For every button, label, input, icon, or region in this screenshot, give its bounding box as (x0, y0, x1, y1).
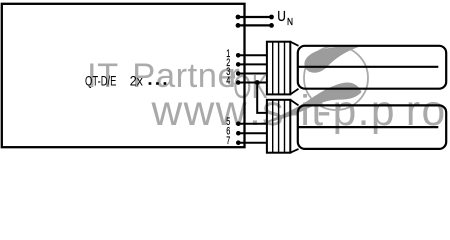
svg-text:2x: 2x (130, 73, 143, 89)
lamp 1 tube (298, 46, 446, 89)
svg-text:QT-D/E: QT-D/E (85, 72, 116, 88)
lamp 1 base (267, 42, 290, 95)
terminal dot pin 5 (236, 121, 241, 126)
lamp 2 neck (290, 100, 298, 153)
svg-text:U: U (277, 8, 286, 24)
ballast box QT-D/E (2, 4, 245, 147)
terminal dot U_N 1 right (269, 15, 274, 20)
label U_N (277, 8, 293, 28)
terminal dot pin 3 (236, 71, 241, 76)
junction dot on pin 4 wire (255, 80, 260, 85)
terminal dot pin 2 (236, 62, 241, 67)
wire shared drop from pin 4 to lamp 2 (257, 83, 267, 113)
lamp 2 middle line (299, 126, 439, 128)
lamp 2 tube (298, 105, 446, 148)
terminal dot U_N 2 right (269, 23, 274, 28)
wire pin 6 (238, 132, 267, 134)
svg-text:7: 7 (226, 135, 230, 148)
terminal dot pin 1 (236, 53, 241, 58)
lamp 2 base (267, 100, 290, 153)
label ellipsis dots (149, 82, 167, 85)
wire U_N line 1 (238, 16, 272, 18)
lamp 1 middle line (299, 66, 439, 68)
lamp 1 neck (290, 42, 298, 95)
wire pin 7 (238, 142, 267, 144)
terminal dot pin 6 (236, 131, 241, 136)
wire pin 3 (238, 73, 267, 75)
svg-text:N: N (287, 16, 293, 28)
svg-text:4: 4 (226, 74, 230, 87)
wire pin 1 (238, 54, 267, 56)
terminal dot pin 4 (236, 80, 241, 85)
wire pin 2 (238, 63, 267, 65)
wire pin 4 (238, 82, 267, 84)
terminal dot U_N 2 left (236, 23, 241, 28)
watermark ring of logo (304, 46, 368, 110)
watermark swoosh logo lower leaf and tail (261, 83, 362, 124)
wire pin 5 (238, 123, 267, 125)
wire U_N line 2 (238, 24, 272, 26)
watermark swoosh logo upper leaf (304, 45, 364, 73)
terminal dot pin 7 (236, 140, 241, 145)
terminal dot U_N 1 left (236, 15, 241, 20)
